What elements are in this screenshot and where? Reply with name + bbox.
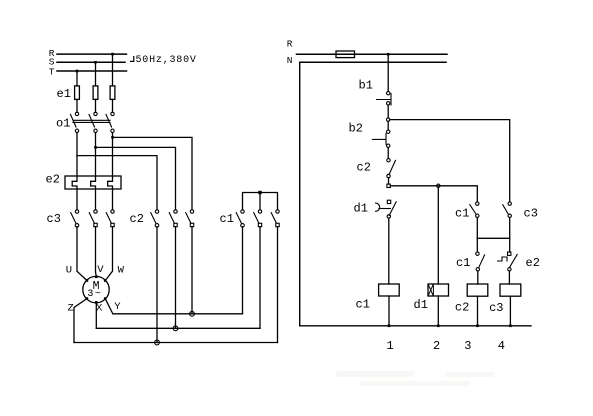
- wire coil c1 to rail: [388, 296, 390, 326]
- wire interlock bus: [477, 237, 509, 239]
- junction rail node 1: [388, 325, 391, 328]
- wire c2 pole1 down: [156, 227, 158, 343]
- wire Y bus to c1 pole1: [113, 313, 243, 315]
- junction T-line tap: [76, 70, 79, 73]
- svg-text:o1: o1: [56, 117, 70, 131]
- junction star bridge: [258, 191, 261, 194]
- wire motor X down: [95, 302, 97, 328]
- wire fuse3 to switch: [112, 99, 114, 112]
- wire phase3 through overload: [108, 133, 113, 210]
- contact c1 aux upper blade: [470, 205, 476, 214]
- wire R drop to fuse: [112, 54, 114, 86]
- contactor c2 pole3 bottom: [190, 223, 193, 226]
- button b2 plunger: [372, 138, 386, 140]
- supply bracket mark: [131, 57, 134, 62]
- wire branch A to c1 contact: [390, 186, 477, 202]
- button b2 top terminal: [387, 130, 390, 133]
- wire branch phase3 to c2 pole3: [113, 137, 193, 209]
- coil c2: [467, 284, 488, 296]
- coil c3: [500, 284, 521, 296]
- contact d1 delay arc: [376, 203, 380, 211]
- svg-text:c1: c1: [456, 256, 470, 270]
- contactor c1 pole3 bottom: [276, 223, 279, 226]
- contactor c2 pole2 blade: [169, 213, 174, 223]
- contact e2 blade: [509, 254, 517, 267]
- wire motor Z to bottom bus: [74, 299, 87, 343]
- wire S drop to fuse: [95, 62, 97, 86]
- wire bottom return rail: [300, 325, 531, 327]
- junction rail node 3: [476, 325, 479, 328]
- junction node d1 coil feed: [437, 184, 440, 187]
- svg-text:c1: c1: [220, 212, 234, 226]
- button b1 top terminal: [387, 92, 390, 95]
- button b1 bottom terminal: [387, 102, 390, 105]
- junction R line tap: [387, 53, 390, 56]
- terminal X: [95, 301, 98, 304]
- wire branch phase1 to c2 pole1: [77, 156, 157, 210]
- svg-text:4: 4: [498, 339, 505, 353]
- contact e2 bottom terminal: [508, 268, 511, 271]
- contactor c2 pole3 blade: [186, 213, 191, 223]
- contact d1 blade: [389, 202, 396, 216]
- switch o1 pole1 top: [75, 112, 78, 115]
- contact e2 thermal symbol: [498, 257, 508, 261]
- svg-text:c1: c1: [455, 207, 469, 221]
- wire N return left vertical: [299, 62, 301, 326]
- svg-text:c2: c2: [357, 161, 371, 175]
- terminal U: [86, 279, 89, 282]
- wire c3 aux down to bus: [509, 218, 511, 239]
- svg-text:1: 1: [387, 339, 394, 353]
- motor M circle: [83, 276, 109, 302]
- contactor c2 pole3 top: [190, 210, 193, 213]
- contactor c1 pole2 bottom: [258, 223, 261, 226]
- fuse e1 pole 3: [110, 86, 115, 100]
- junction node c2p1-Z: [155, 340, 160, 345]
- junction node branch A: [387, 184, 390, 187]
- svg-text:e2: e2: [526, 256, 540, 270]
- button b2 contact bar: [385, 133, 387, 144]
- switch o1 coupling bar: [73, 120, 110, 122]
- switch o1 pole1 bottom: [75, 129, 78, 132]
- wire bus to c1 lower: [476, 238, 478, 252]
- contact c1 aux upper top terminal: [476, 202, 479, 205]
- wire control R line: [297, 53, 448, 55]
- wire c2 aux to node: [388, 178, 390, 184]
- contact c1 aux lower top terminal: [476, 252, 479, 255]
- contactor c2 pole1 bottom: [155, 224, 159, 228]
- contactor c3 pole1 bottom: [75, 224, 79, 228]
- switch o1 pole1 blade: [71, 114, 77, 127]
- wire e2 to c3 coil: [508, 271, 510, 284]
- contactor c3 pole1 top: [75, 210, 78, 213]
- wire d1 coil feed down: [437, 188, 439, 285]
- fuse control circuit: [336, 51, 355, 58]
- svg-text:N: N: [287, 55, 293, 66]
- wire S phase line: [57, 61, 125, 63]
- svg-text:c2: c2: [455, 301, 469, 315]
- contactor c3 pole3 top: [111, 210, 114, 213]
- contactor c2 pole2 bottom: [174, 223, 177, 226]
- wire junction to b2: [387, 121, 389, 130]
- contact c1 aux upper bottom terminal: [476, 214, 479, 217]
- wire phase1 through overload: [72, 133, 77, 210]
- svg-text:3~: 3~: [87, 289, 102, 300]
- contact c3 aux blade: [503, 205, 508, 214]
- wire T phase line: [57, 70, 127, 72]
- wire coil d1 to rail: [437, 296, 439, 326]
- wire fuse2 to switch: [95, 99, 97, 112]
- switch o1 pole2 top: [94, 112, 97, 115]
- contactor c1 pole1 bottom: [241, 224, 245, 228]
- svg-text:W: W: [118, 265, 125, 277]
- svg-text:b1: b1: [359, 79, 373, 93]
- svg-text:2: 2: [433, 339, 440, 353]
- terminal Y: [104, 297, 107, 300]
- contactor c1 pole1 blade: [236, 213, 241, 223]
- wire c3 pole2 to motor V: [95, 227, 98, 277]
- coil d1 timer mark: [428, 284, 433, 296]
- contactor c3 pole1 blade: [71, 213, 76, 223]
- terminal W: [104, 279, 107, 282]
- contactor c1 pole3 top: [276, 210, 279, 213]
- svg-text:c2: c2: [130, 212, 144, 226]
- wire branch to c3 contact: [390, 120, 510, 202]
- overload relay e2 box: [65, 176, 121, 189]
- wire c3 pole3 to motor W: [106, 227, 113, 281]
- wire coil c3 to rail: [509, 296, 511, 326]
- svg-text:50Hz,380V: 50Hz,380V: [136, 55, 197, 66]
- terminal Z: [86, 297, 89, 300]
- wire c3 pole1 to motor U: [77, 227, 87, 281]
- contactor c1 pole2 blade: [254, 213, 259, 223]
- switch o1 pole3 bottom: [111, 129, 114, 132]
- wire d1 to coil c1: [388, 218, 390, 284]
- junction rail node 4: [509, 325, 512, 328]
- contactor c2 pole2 top: [174, 210, 177, 213]
- svg-text:R: R: [287, 39, 293, 50]
- contact c1 aux lower bottom terminal: [476, 268, 479, 271]
- contactor c1 pole3 blade: [271, 213, 276, 223]
- contact d1 bottom terminal: [387, 215, 390, 218]
- wire c1 star bridge: [243, 193, 278, 210]
- wire c1 aux down to bus: [476, 218, 478, 239]
- contact c2 aux blade: [389, 160, 396, 174]
- svg-text:3: 3: [464, 339, 471, 353]
- contact d1 top terminal: [387, 200, 390, 203]
- svg-text:b2: b2: [349, 122, 363, 136]
- svg-text:d1: d1: [354, 202, 368, 216]
- svg-text:c3: c3: [489, 301, 503, 315]
- junction node c2p2-X: [173, 326, 178, 331]
- wire motor Y down: [105, 299, 113, 314]
- wire X bus to c1 pole2: [96, 327, 260, 329]
- svg-text:T: T: [49, 66, 55, 77]
- switch o1 pole3 blade: [106, 114, 112, 127]
- faint watermark smudge: [335, 371, 495, 386]
- terminal V: [95, 276, 98, 279]
- wire R phase line: [57, 53, 127, 55]
- fuse e1 pole 1: [75, 86, 80, 100]
- svg-text:U: U: [66, 265, 72, 277]
- contactor c3 pole2 blade: [89, 213, 94, 223]
- wire phase2 through overload: [91, 133, 96, 210]
- wire branch phase2 to c2 pole2: [96, 147, 176, 209]
- wire Z bus to c1 pole3: [74, 342, 278, 344]
- junction phase3 branch: [111, 136, 114, 139]
- svg-text:X: X: [96, 302, 103, 314]
- contactor c3 pole2 bottom: [94, 223, 97, 226]
- wire control N line: [300, 61, 446, 63]
- wire c1 pole2 down: [259, 227, 261, 329]
- junction phase2 branch: [94, 146, 97, 149]
- wire bus to e2 contact: [509, 238, 511, 252]
- fuse e1 pole 2: [93, 86, 98, 100]
- contactor c3 pole2 top: [94, 210, 97, 213]
- wire c2 pole2 down: [175, 227, 177, 329]
- junction seal-in node: [387, 118, 390, 121]
- contact e2 top terminal: [508, 252, 511, 255]
- wire c2 pole3 down: [191, 227, 193, 314]
- contact c1 aux lower blade: [479, 255, 485, 268]
- contactor c1 pole1 top: [241, 210, 244, 213]
- svg-text:c3: c3: [524, 207, 538, 221]
- wire coil c2 to rail: [477, 296, 479, 326]
- wire R tap down to b1: [387, 54, 389, 91]
- contact c2 aux bottom terminal: [387, 174, 390, 177]
- contactor c2 pole1 blade: [151, 213, 156, 223]
- switch o1 pole2 blade: [89, 114, 95, 127]
- coil d1 body: [428, 284, 449, 296]
- svg-text:Y: Y: [114, 301, 121, 313]
- coil c1: [379, 284, 400, 296]
- button b2 bottom terminal: [387, 144, 390, 147]
- junction node c2p3-Y: [190, 311, 195, 316]
- switch o1 pole3 top: [111, 112, 114, 115]
- junction R-line tap: [111, 53, 114, 56]
- switch o1 pole2 bottom: [94, 129, 97, 132]
- svg-text:e2: e2: [46, 173, 60, 187]
- contactor c2 pole1 top: [155, 210, 158, 213]
- wire c1 lower to c2 coil: [477, 271, 479, 284]
- svg-text:e1: e1: [57, 87, 71, 101]
- contact d1 bar: [379, 208, 390, 210]
- contactor c3 pole3 blade: [106, 213, 111, 223]
- contact c3 aux bottom terminal: [508, 214, 511, 217]
- svg-text:c3: c3: [47, 212, 61, 226]
- junction S-line tap: [94, 61, 97, 64]
- svg-text:d1: d1: [414, 298, 428, 312]
- button b1 plunger: [377, 99, 392, 101]
- contactor c3 pole3 bottom: [111, 223, 114, 226]
- wire fuse1 to switch: [76, 99, 78, 112]
- button b1 contact bar: [390, 94, 392, 106]
- svg-text:Z: Z: [68, 302, 74, 314]
- wire c1 pole1 down: [242, 227, 244, 314]
- contactor c1 pole2 top: [258, 210, 261, 213]
- wire c1 pole3 down: [277, 227, 279, 343]
- contact c2 aux top terminal: [387, 159, 390, 162]
- svg-text:c1: c1: [356, 298, 370, 312]
- svg-text:V: V: [97, 264, 104, 276]
- wire T drop to fuse: [76, 71, 78, 86]
- junction rail node 2: [437, 325, 440, 328]
- wire b2 to c2 contact: [387, 148, 389, 159]
- wire b1 to junction: [387, 105, 389, 118]
- contact c3 aux top terminal: [508, 202, 511, 205]
